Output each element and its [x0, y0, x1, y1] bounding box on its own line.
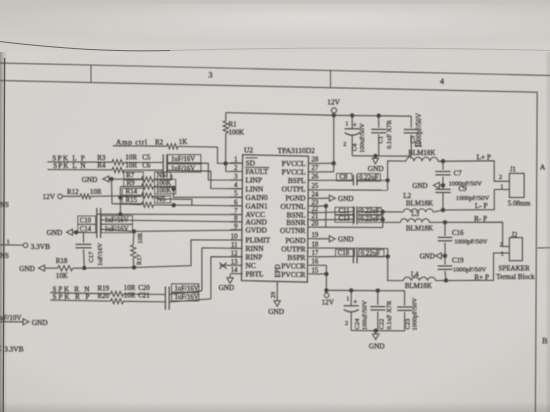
wire to gnd symbol (bottom bank) — [375, 331, 377, 334]
3.3VB port circle — [23, 243, 28, 248]
capacitor C7 — [442, 161, 444, 170]
wire to R7 — [112, 178, 142, 180]
capacitor C1 — [378, 116, 380, 128]
junction riser/row21 — [381, 218, 384, 221]
C18 value box — [359, 250, 384, 257]
U2 pin 19 stub — [309, 238, 321, 240]
wire C6 to LINN step — [167, 170, 243, 188]
junction R9-left / 12V row — [119, 196, 122, 199]
ground symbol (EPD pin29) — [274, 301, 280, 307]
junction gain gnd node — [110, 177, 113, 180]
C6 value box — [168, 164, 201, 172]
wire R15 to GAIN1 pin6 — [154, 205, 243, 206]
inductor L1 — [406, 157, 438, 161]
wire C20 out to RINN riser — [169, 291, 202, 295]
wire BSPR pin17 row — [321, 255, 354, 257]
ground symbol (PBTL) — [227, 278, 233, 284]
wire BSNL pin22 row — [321, 211, 354, 214]
wire OUTPR pin18 row — [321, 247, 388, 249]
wire R9 row left — [120, 185, 141, 187]
U2 pin13 stub extension — [220, 264, 231, 266]
wire gnd junction down to R15 — [112, 179, 142, 205]
wire C8 to OUTPL riser — [357, 179, 388, 181]
wire junction to pin1 — [226, 162, 243, 164]
wire top 12V rail — [334, 114, 411, 117]
capacitor C9 — [442, 185, 444, 189]
junction C17 bottom — [83, 266, 86, 269]
wire L2 to L-P / J1 pin1 — [433, 190, 509, 213]
junction C7/C9 gnd — [441, 184, 444, 187]
wire C11 out — [357, 211, 383, 213]
wire C13 out — [357, 218, 383, 220]
wire to gnd symbol — [374, 156, 376, 158]
C8 refdes box — [337, 173, 353, 181]
12V port circle (bottom) — [324, 293, 329, 298]
U2 pin 25 stub — [309, 189, 321, 191]
wire Amp ctrl net — [113, 145, 167, 147]
resistor R18 — [58, 266, 73, 271]
ground arrow (bottom left, right-pointing) — [23, 319, 29, 325]
capacitor C19 — [444, 256, 446, 265]
wire AVCC pin7 row — [97, 213, 243, 215]
U2 pin 17 stub — [309, 256, 321, 258]
paper left edge line — [3, 58, 4, 412]
zone band divider tick left — [90, 65, 92, 83]
R15 refdes box — [122, 197, 143, 204]
junction C19 bottom — [444, 279, 447, 282]
U2 pin 3 stub — [231, 179, 243, 181]
U2 pin 15 stub — [309, 273, 321, 275]
wire gnd to cap bars — [73, 231, 97, 233]
inductor L2 — [403, 209, 433, 212]
resistor R17 vertical branch — [132, 231, 135, 245]
wire RINN pin11 step — [202, 248, 243, 291]
capacitors C10/C14 shared plate bars — [96, 208, 98, 238]
wire SPK_R_P row — [50, 300, 110, 301]
ground arrow (C16/C19) — [435, 253, 441, 259]
C10 value box — [101, 216, 132, 224]
ground symbol (top bank) — [372, 158, 378, 164]
junction SD/FAULT node — [224, 162, 227, 165]
U2 pin 5 stub — [231, 196, 243, 198]
wire C16 to gnd node — [444, 242, 446, 255]
U2 pin 13 stub — [231, 264, 243, 266]
ground arrow (C10/C14) — [67, 229, 73, 235]
junction C16 top — [443, 221, 446, 224]
wire bottom bank bottom rail — [351, 330, 404, 332]
wire SPK_L_N row — [47, 169, 112, 171]
resistor R7 — [142, 177, 154, 182]
junction C8/OUTPL riser — [386, 179, 389, 182]
wire 12V to R12 — [62, 195, 80, 197]
wire SPK_R_N row — [50, 293, 110, 294]
op-amp-class IC U2 TPA3110D2 body — [242, 155, 309, 282]
wire C21 out to RINP riser — [169, 299, 211, 302]
wire OUTNL pin23 — [321, 205, 327, 207]
wire PBTL pin14 to ground — [229, 274, 231, 278]
wire R7 right to LINN net — [154, 175, 172, 180]
wire gnd arrow to junction — [109, 178, 112, 180]
capacitor C16 — [444, 222, 446, 236]
junction C24 top — [350, 289, 353, 292]
wire BSPL pin26 row — [321, 179, 354, 181]
inductor L4 — [403, 277, 435, 280]
junction C16/C19 gnd — [443, 254, 446, 257]
R9 value box — [155, 179, 176, 186]
wire R9 left vertical — [119, 187, 121, 215]
wire RINP pin12 step — [211, 257, 243, 299]
wire OUTPL pin25 row — [321, 189, 388, 191]
wire PGND pin19 to gnd — [321, 238, 330, 240]
wire L1 to L+P / J1 pin2 — [438, 161, 509, 182]
wire 12V circle to rail — [333, 113, 335, 115]
U2 pin 1 stub — [231, 162, 243, 164]
U2 pin 24 stub — [309, 197, 321, 199]
junction GAIN1 row a — [172, 204, 175, 207]
wire R20 to C21 — [124, 300, 166, 303]
12V port circle (left) — [58, 194, 63, 199]
junction C9 bottom — [441, 208, 444, 211]
wire pin27 stub to 12V vertical — [321, 171, 334, 173]
U2 pin13 NC no-connect cross — [220, 263, 227, 269]
junction R17 bottom — [132, 266, 135, 269]
R15 value box NS — [155, 196, 171, 203]
capacitor C3 — [410, 116, 412, 128]
U2 pin 4 stub — [231, 188, 243, 190]
connector J1 body — [509, 173, 524, 197]
ground arrow (gain network) — [103, 176, 109, 182]
wire 12V vertical down to pins 28/27 — [333, 115, 335, 172]
R9 refdes box — [124, 180, 144, 187]
ground symbol (bottom bank) — [373, 334, 379, 340]
U2 pin 6 stub — [231, 205, 243, 207]
wire PVCCR pin16 stub to 12V vertical — [321, 264, 327, 266]
wire R9 to GAIN0 — [154, 187, 243, 198]
junction GVDD row / R17 top — [132, 230, 135, 233]
ground arrow (pin19) — [329, 236, 335, 242]
resistor R14 — [142, 193, 154, 198]
U2 pin1 SD overline — [246, 157, 258, 159]
wire L4 to R+P / J2 pin1 — [436, 253, 510, 281]
ground arrow (C7/C9) — [433, 182, 439, 188]
U2 pin 8 stub — [231, 221, 243, 223]
capacitor C8 — [352, 175, 354, 185]
U2 pin 21 stub — [309, 219, 321, 221]
wire PLIMIT row — [73, 240, 243, 268]
C8 value box — [357, 174, 380, 182]
zone divider tick right margin — [538, 247, 550, 249]
wire PGND pin24 to gnd — [321, 197, 330, 199]
U2 pin 12 stub — [231, 256, 243, 258]
U2 pin 20 stub — [309, 226, 321, 228]
wire junction down to pin2 FAULT — [226, 163, 243, 171]
R14 refdes box — [122, 188, 143, 195]
junction L2 feed — [381, 210, 384, 213]
junction bottom 12V rail — [325, 289, 328, 292]
resistor R20 — [111, 299, 124, 304]
wire C10 row to AGND pin8 — [101, 220, 243, 222]
capacitor C23 — [404, 291, 406, 306]
12V port circle (top) — [331, 108, 336, 113]
U2 pin 2 stub — [231, 170, 243, 172]
wire OUTNR pin20 row — [321, 226, 383, 228]
resistor R12 — [80, 194, 91, 199]
wire gnd to R18 — [45, 267, 58, 269]
C20 value box — [172, 284, 199, 292]
resistor R2 — [167, 144, 178, 149]
capacitor C13 — [352, 214, 354, 224]
wire OUTPR riser to L4 — [388, 248, 404, 280]
junction C1 top — [377, 114, 380, 117]
wire C5 to LINP step — [167, 163, 243, 181]
wire OUTPL riser to L1 — [388, 161, 406, 190]
inductor L3 — [401, 219, 430, 223]
wire PVCCR pin15 stub to 12V vertical — [321, 273, 327, 275]
capacitor C18 — [352, 249, 354, 263]
wire bottom 12V rail — [326, 289, 404, 292]
wire pin28 stub to 12V vertical — [321, 162, 334, 164]
U2 pin 10 stub — [231, 239, 243, 241]
wire L3 feed — [383, 221, 401, 223]
resistor R3 — [112, 160, 124, 165]
R7 value box NS — [155, 172, 171, 179]
wire 3.3VB stub — [0, 244, 23, 246]
U2 pin 18 stub — [309, 247, 321, 249]
junction C18/OUTPR riser — [386, 255, 389, 258]
wire R4 to C6 — [124, 169, 163, 171]
wire R2 to SD junction — [178, 146, 226, 163]
junction C7 top — [441, 160, 444, 163]
wire 12V vertical (bottom) — [325, 265, 327, 293]
C13 refdes box — [335, 215, 354, 222]
U2 pin2 FAULT overline — [245, 166, 269, 168]
U2 pin 22 stub — [309, 211, 321, 213]
wire R3 to C5 — [124, 161, 163, 163]
resistor R4 — [112, 167, 124, 172]
resistor R9 — [142, 184, 154, 189]
wire 12V rail to R1 top — [226, 113, 334, 116]
C13 value box — [359, 215, 382, 222]
C11 value box — [359, 207, 382, 214]
paper top edge faint crease — [0, 42, 170, 51]
capacitor C17 vertical — [83, 232, 85, 242]
U2 pin 7 stub — [231, 213, 243, 215]
junction on GAIN0 drop — [172, 187, 175, 190]
resistor R1 vertical — [225, 113, 227, 121]
junction top bank gnd — [374, 154, 377, 157]
junction R9-left / AVCC row — [119, 213, 122, 216]
U2 pin 11 stub — [231, 247, 243, 249]
wire top bank bottom rail — [352, 155, 411, 157]
R14 value box — [155, 187, 176, 194]
junction 12V rail — [332, 114, 335, 117]
U2 pin 16 stub — [309, 264, 321, 266]
junction pin28 row — [332, 162, 335, 165]
sheet zone band top line — [0, 63, 550, 76]
wire R19 to C20 — [124, 293, 166, 296]
U2 pin 14 stub — [231, 273, 243, 275]
wire R14 to GAIN1 — [154, 196, 192, 206]
junction pin23 node — [324, 204, 327, 207]
C10 refdes box — [78, 216, 96, 224]
ground arrow (pin24) — [329, 195, 335, 201]
wire L3 to R-P / J2 pin2 — [429, 222, 509, 246]
resistor R15 — [142, 202, 154, 207]
junction pin15 row — [325, 272, 328, 275]
C18 refdes box — [336, 249, 355, 256]
C14 refdes box — [78, 224, 96, 232]
C5 value box — [168, 155, 201, 163]
wire bottom-left gnd stub — [0, 321, 23, 323]
wire C18 out — [357, 255, 388, 257]
junction bottom bank gnd — [374, 329, 377, 332]
sheet inner border top line — [0, 81, 537, 412]
U2 pin 29 EPD wire to ground — [276, 282, 278, 301]
capacitor C4 electrolytic — [351, 116, 353, 129]
C14 value box — [101, 224, 132, 232]
capacitors C20/C21 shared plate bars — [164, 287, 166, 310]
wire SPK_L_P row — [47, 161, 112, 163]
C11 refdes box — [335, 207, 354, 214]
U2 pin 9 stub — [231, 229, 243, 231]
wire BSNR pin21 row — [321, 218, 354, 221]
U2 pin 26 stub — [309, 179, 321, 181]
resistor R19 — [111, 291, 124, 296]
U2 pin 23 stub — [309, 205, 321, 207]
wire R12 to R14 — [91, 195, 142, 198]
U2 pin 28 stub — [309, 162, 321, 164]
partial 3.3VB port at bottom edge — [0, 346, 1, 351]
connector J2 body — [509, 238, 522, 261]
wire C7 to gnd node — [442, 177, 444, 186]
junction C4 top — [351, 114, 354, 117]
junction gnd / C17 top — [75, 231, 78, 234]
capacitors C5/C6 shared plate bars — [162, 154, 164, 177]
wire C14 row to GVDD pin9 — [101, 229, 243, 231]
zone band divider tick mid — [330, 70, 332, 88]
junction C22 top — [376, 289, 379, 292]
capacitor C24 electrolytic — [350, 290, 352, 305]
wire riser rows 22-20 — [382, 212, 384, 228]
capacitor C11 — [352, 206, 354, 216]
wire pin23 vertical tie — [325, 206, 327, 227]
U2 pin 27 stub — [309, 171, 321, 173]
C21 value box — [172, 293, 199, 301]
R7 refdes box — [124, 172, 144, 179]
wire to L2 — [383, 211, 404, 213]
ground arrow (R18) — [39, 265, 45, 271]
capacitor C22 — [377, 291, 379, 305]
